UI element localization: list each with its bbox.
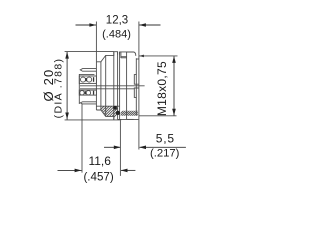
svg-text:(.457): (.457) (83, 170, 113, 183)
svg-text:(.217): (.217) (150, 148, 180, 160)
svg-text:12,3: 12,3 (106, 15, 128, 27)
svg-text:(DIA .788): (DIA .788) (52, 58, 64, 119)
svg-text:11,6: 11,6 (88, 154, 111, 168)
svg-text:5,5: 5,5 (156, 131, 175, 145)
svg-text:(.484): (.484) (102, 29, 131, 41)
svg-text:M18x0,75: M18x0,75 (155, 61, 169, 116)
